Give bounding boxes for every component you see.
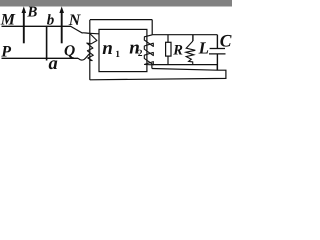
svg-text:R: R <box>172 42 183 58</box>
gray top bar <box>0 0 232 7</box>
rod ab <box>46 26 48 61</box>
top wire of transformer loop <box>90 19 152 21</box>
svg-text:1: 1 <box>115 50 120 60</box>
arrowhead B <box>22 6 27 13</box>
R branch bottom lead <box>167 56 169 65</box>
C bottom lead <box>216 54 218 70</box>
left coil n1 <box>87 34 97 61</box>
load bus corner up to C <box>216 65 218 71</box>
C top lead <box>216 35 218 48</box>
left winding backbone <box>89 20 91 80</box>
core rectangle <box>99 29 147 71</box>
right coil n2 <box>144 35 153 65</box>
svg-text:2: 2 <box>138 49 143 59</box>
svg-text:n: n <box>102 38 113 59</box>
wire squiggle from Q to transformer <box>78 54 90 60</box>
top rail MN <box>2 25 71 27</box>
R branch top lead <box>167 35 169 43</box>
bottom rail PQ <box>2 57 79 59</box>
svg-text:M: M <box>0 12 16 29</box>
svg-text:P: P <box>0 44 11 61</box>
resistor R box <box>166 42 171 56</box>
svg-text:L: L <box>198 39 209 58</box>
svg-text:Q: Q <box>64 43 75 60</box>
svg-text:a: a <box>49 54 58 74</box>
svg-text:B: B <box>26 5 37 21</box>
right backbone upper <box>151 20 153 35</box>
arrowhead N <box>59 6 64 13</box>
wire from n2 bottom to C <box>90 69 226 80</box>
arrow N shaft <box>61 12 63 44</box>
wire from top rail to transformer <box>70 26 98 34</box>
arrow B shaft <box>23 12 25 44</box>
svg-text:b: b <box>47 13 55 29</box>
inductor L zigzag <box>186 41 196 65</box>
right backbone lower <box>151 65 153 69</box>
capacitor top plate <box>210 48 225 50</box>
top bus to load <box>152 34 217 36</box>
svg-text:C: C <box>220 30 232 50</box>
svg-text:N: N <box>68 12 82 29</box>
load bottom bus <box>152 64 217 66</box>
L branch top lead <box>192 35 194 41</box>
capacitor bottom plate <box>209 53 226 55</box>
